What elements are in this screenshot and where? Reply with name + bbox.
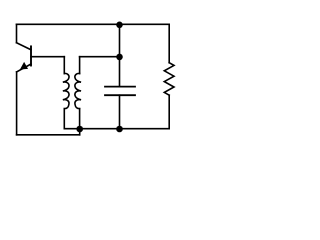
wire resistor bottom lead: [168, 95, 170, 129]
wire stub up to node A: [79, 129, 81, 135]
transistor Q1 emitter arrow (PNP): [21, 63, 27, 69]
wire resistor top lead: [168, 24, 170, 62]
transistor Q1 emitter lead: [17, 64, 31, 72]
resistor R1 zigzag: [164, 63, 174, 95]
node B dot mid: [116, 54, 123, 61]
transistor Q1 base bar: [30, 46, 32, 65]
wire L1 top riser: [63, 57, 65, 74]
wire L2 top riser: [79, 57, 81, 74]
wire L1 bottom lead: [63, 109, 65, 129]
wire capacitor bottom lead: [119, 95, 121, 129]
wire bottom left rail: [17, 134, 80, 136]
wire top rail: [17, 23, 170, 25]
wire L1 to node A: [64, 128, 79, 130]
wire mid vertical top rail to node B: [119, 24, 121, 56]
wire bottom bus node B to resistor: [120, 128, 170, 130]
inductor L2 (secondary winding, bumps left): [75, 73, 81, 108]
wire L2 top to node B: [80, 56, 120, 58]
capacitor C1 bottom plate: [105, 94, 135, 96]
wire base to L1: [31, 56, 64, 58]
wire emitter down leg: [16, 72, 18, 135]
node A dot bottom: [76, 126, 83, 133]
wire L2 bottom lead: [79, 109, 81, 129]
node dot top rail: [116, 22, 123, 29]
inductor L1 (primary winding, bumps right): [63, 73, 69, 108]
wire node B to capacitor: [119, 57, 121, 87]
capacitor C1 top plate: [105, 86, 135, 88]
node dot capacitor bottom: [116, 126, 123, 133]
transistor Q1 collector lead: [17, 43, 32, 50]
wire bottom bus node A to node B: [80, 128, 120, 130]
wire left collector riser: [16, 24, 18, 42]
